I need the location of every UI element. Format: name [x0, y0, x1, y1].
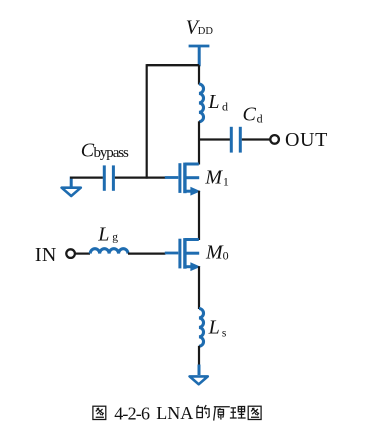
svg-text:OUT: OUT	[285, 129, 328, 151]
caption latin text 4-2-6 LNA	[114, 403, 193, 423]
svg-text:0: 0	[223, 249, 229, 263]
label Cd	[243, 104, 263, 126]
label VDD	[186, 17, 214, 39]
capacitor Cbypass	[104, 165, 113, 190]
wire Cbypass to M1 gate	[115, 177, 166, 179]
svg-text:M: M	[204, 166, 223, 188]
svg-text:IN: IN	[35, 244, 57, 266]
wire IN to Lg	[75, 253, 90, 255]
power symbol VDD	[189, 45, 210, 66]
inductor Ls	[199, 309, 204, 347]
svg-text:L: L	[207, 91, 219, 113]
svg-text:s: s	[222, 327, 227, 339]
ground (source degeneration)	[190, 365, 208, 385]
wire M0 source to Ls	[198, 266, 200, 309]
transistor M1 source arrow	[190, 187, 200, 196]
label M1	[204, 166, 229, 188]
svg-text:L: L	[97, 224, 109, 246]
svg-text:C: C	[243, 104, 257, 126]
wire left branch	[146, 64, 148, 179]
node IN terminal	[66, 249, 75, 258]
transistor M0	[165, 238, 199, 269]
label Lg	[97, 224, 118, 246]
ground (Cbypass)	[62, 177, 81, 197]
wire Lg to M0 gate	[128, 253, 166, 255]
wire Cd to OUT terminal	[242, 138, 270, 140]
wire M1 source to M0 drain	[198, 191, 200, 240]
svg-text:d: d	[257, 112, 263, 126]
svg-text:1: 1	[223, 175, 229, 189]
inductor Ld	[199, 84, 204, 122]
wire VDD to Ld	[198, 65, 200, 84]
svg-text:LNA: LNA	[156, 403, 193, 423]
svg-text:bypass: bypass	[94, 145, 129, 161]
inductor Lg	[90, 249, 128, 254]
wire Ld to M1 drain	[198, 121, 200, 164]
wire Ls to ground	[198, 346, 200, 366]
transistor M1	[165, 163, 199, 194]
svg-text:L: L	[208, 317, 220, 339]
glyph 图 (2nd)	[248, 406, 261, 419]
wire ground to Cbypass	[70, 177, 103, 179]
node OUT terminal	[270, 135, 279, 144]
svg-text:g: g	[112, 232, 118, 244]
label Ls	[208, 317, 227, 340]
glyph 图 (1st)	[93, 406, 106, 419]
svg-text:d: d	[222, 100, 228, 114]
wire drain node to Cd	[199, 138, 230, 140]
transistor M0 source arrow	[190, 262, 200, 271]
svg-text:DD: DD	[198, 26, 214, 37]
wire top rail	[147, 64, 199, 66]
glyph 的	[197, 405, 209, 418]
svg-text:4-2-6: 4-2-6	[114, 403, 150, 423]
label Ld	[207, 91, 228, 113]
svg-text:M: M	[205, 242, 224, 264]
label M0	[205, 242, 229, 264]
caption: 图 4-2-6 LNA 的原理图	[0, 0, 1, 1]
glyph 原	[214, 407, 230, 421]
capacitor Cd	[231, 127, 240, 153]
label Cbypass	[81, 140, 129, 162]
glyph 理	[230, 407, 246, 419]
